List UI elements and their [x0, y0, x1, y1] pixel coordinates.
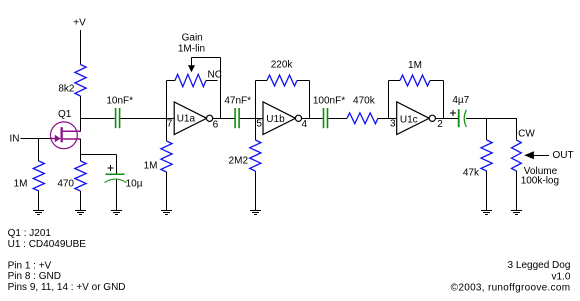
resistor 1M input [33, 161, 44, 191]
resistor 47k [486, 118, 488, 140]
svg-text:47k: 47k [463, 168, 480, 179]
svg-text:IN: IN [10, 134, 20, 145]
svg-text:Pin 1 : +V: Pin 1 : +V [8, 260, 52, 271]
wire 2M2 to ground [255, 171, 257, 211]
svg-text:NC: NC [208, 70, 222, 81]
ground 6 [481, 211, 492, 215]
svg-text:47nF*: 47nF* [224, 96, 251, 107]
wire C 47nF to U1b input [240, 118, 263, 120]
svg-text:1M: 1M [144, 161, 158, 172]
svg-text:4: 4 [302, 119, 308, 130]
plus polarity mark C 4u7 [450, 112, 456, 114]
svg-text:U1a: U1a [177, 114, 196, 125]
wire down to C 10u [116, 155, 118, 174]
svg-text:3: 3 [390, 119, 396, 130]
wire 8k2 to Q1 drain [80, 96, 82, 132]
resistor 220k feedback U1b [256, 75, 310, 118]
svg-text:v1.0: v1.0 [551, 271, 570, 282]
svg-text:U1 : CD4049UBE: U1 : CD4049UBE [8, 239, 87, 250]
svg-text:U1c: U1c [400, 115, 418, 126]
ground 3 [111, 211, 122, 215]
op-amp U1b inverter [263, 102, 302, 135]
wire C 10u to ground [116, 180, 118, 212]
op-amp U1a inverter [174, 102, 213, 135]
wire drain node to C1 [81, 118, 115, 120]
resistor 470 [75, 161, 86, 191]
svg-text:2M2: 2M2 [229, 156, 249, 167]
wire 47k to ground [486, 171, 488, 211]
wire C 4u7 to output node [466, 118, 517, 120]
svg-text:6: 6 [213, 119, 219, 130]
svg-text:10nF*: 10nF* [106, 96, 133, 107]
ground 4 [161, 211, 172, 215]
wire 470 to ground [80, 191, 82, 211]
capacitor C 10u electrolytic [105, 174, 127, 182]
svg-text:10µ: 10µ [126, 178, 143, 189]
svg-text:220k: 220k [271, 60, 294, 71]
wire node down to R 1M [38, 139, 40, 162]
wire IN to gate [21, 138, 51, 140]
resistor 1M feedback U1c [389, 75, 444, 118]
potentiometer Volume 100k-log [512, 118, 550, 211]
svg-text:U1b: U1b [266, 114, 285, 125]
svg-text:Pins 9, 11, 14 : +V or GND: Pins 9, 11, 14 : +V or GND [8, 282, 126, 293]
svg-text:+V: +V [73, 18, 86, 29]
svg-text:OUT: OUT [553, 150, 574, 161]
svg-text:470k: 470k [353, 96, 376, 107]
svg-text:Q1 : J201: Q1 : J201 [8, 228, 52, 239]
wire source node [80, 139, 82, 161]
potentiometer Gain 1M-lin [167, 58, 221, 119]
capacitor C 4u7 electrolytic [459, 109, 467, 127]
ground 1 [33, 211, 44, 215]
wire U1b out to C 100nF [301, 118, 322, 120]
ground 5 [250, 211, 261, 215]
transistor Q1 J201 JFET [50, 122, 80, 149]
wire C 100nF to R 470k [328, 118, 347, 120]
svg-text:2: 2 [437, 119, 443, 130]
wire 1M to ground [166, 172, 168, 211]
svg-text:8k2: 8k2 [58, 84, 75, 95]
svg-text:1M: 1M [408, 60, 422, 71]
svg-text:Q1: Q1 [58, 109, 72, 120]
ground 7 [511, 211, 522, 215]
wire +V down [80, 30, 82, 65]
svg-text:1M: 1M [14, 179, 28, 190]
svg-text:CW: CW [518, 129, 535, 140]
wire 1M to ground [38, 191, 40, 211]
svg-text:470: 470 [57, 179, 74, 190]
op-amp U1c inverter [397, 102, 436, 135]
svg-text:5: 5 [256, 119, 262, 130]
svg-text:Pin 8 : GND: Pin 8 : GND [8, 271, 61, 282]
wire source to C 10u branch [81, 154, 117, 156]
svg-text:100nF*: 100nF* [313, 96, 345, 107]
wire C 10nF to U1a input [120, 118, 174, 120]
svg-text:Gain: Gain [182, 32, 203, 43]
capacitor C 10nF* [116, 108, 120, 128]
wire R 470k to U1c input [378, 118, 397, 120]
resistor 8k2 [75, 65, 86, 97]
svg-text:©2003, runoffgroove.com: ©2003, runoffgroove.com [451, 282, 571, 293]
svg-text:3 Legged Dog: 3 Legged Dog [508, 260, 571, 271]
svg-text:1M-lin: 1M-lin [178, 44, 205, 55]
wire U1a out to C 47nF [213, 118, 235, 120]
wire U1c out to C 4u7 [435, 118, 458, 120]
svg-text:7: 7 [167, 119, 173, 130]
node U1a input junction [166, 81, 168, 119]
capacitor C 47nF* [235, 108, 239, 128]
capacitor C 100nF* [324, 108, 328, 128]
svg-text:4µ7: 4µ7 [452, 95, 469, 106]
resistor 1M bias U1a [161, 141, 172, 172]
resistor 470k [347, 113, 378, 124]
ground 2 [75, 211, 86, 215]
svg-text:100k-log: 100k-log [521, 176, 559, 187]
resistor 2M2 [255, 118, 257, 140]
plus polarity mark C 10u [108, 167, 114, 169]
